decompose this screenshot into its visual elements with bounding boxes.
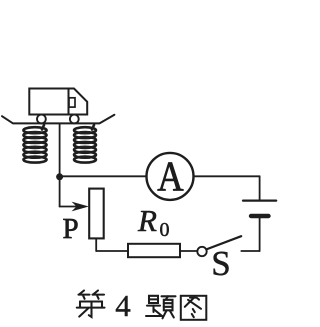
svg-text:P: P <box>63 213 79 245</box>
svg-text:0: 0 <box>160 219 170 241</box>
svg-text:A: A <box>157 153 184 200</box>
svg-text:4: 4 <box>115 288 131 323</box>
svg-text:R: R <box>137 203 157 238</box>
svg-text:S: S <box>211 244 230 283</box>
